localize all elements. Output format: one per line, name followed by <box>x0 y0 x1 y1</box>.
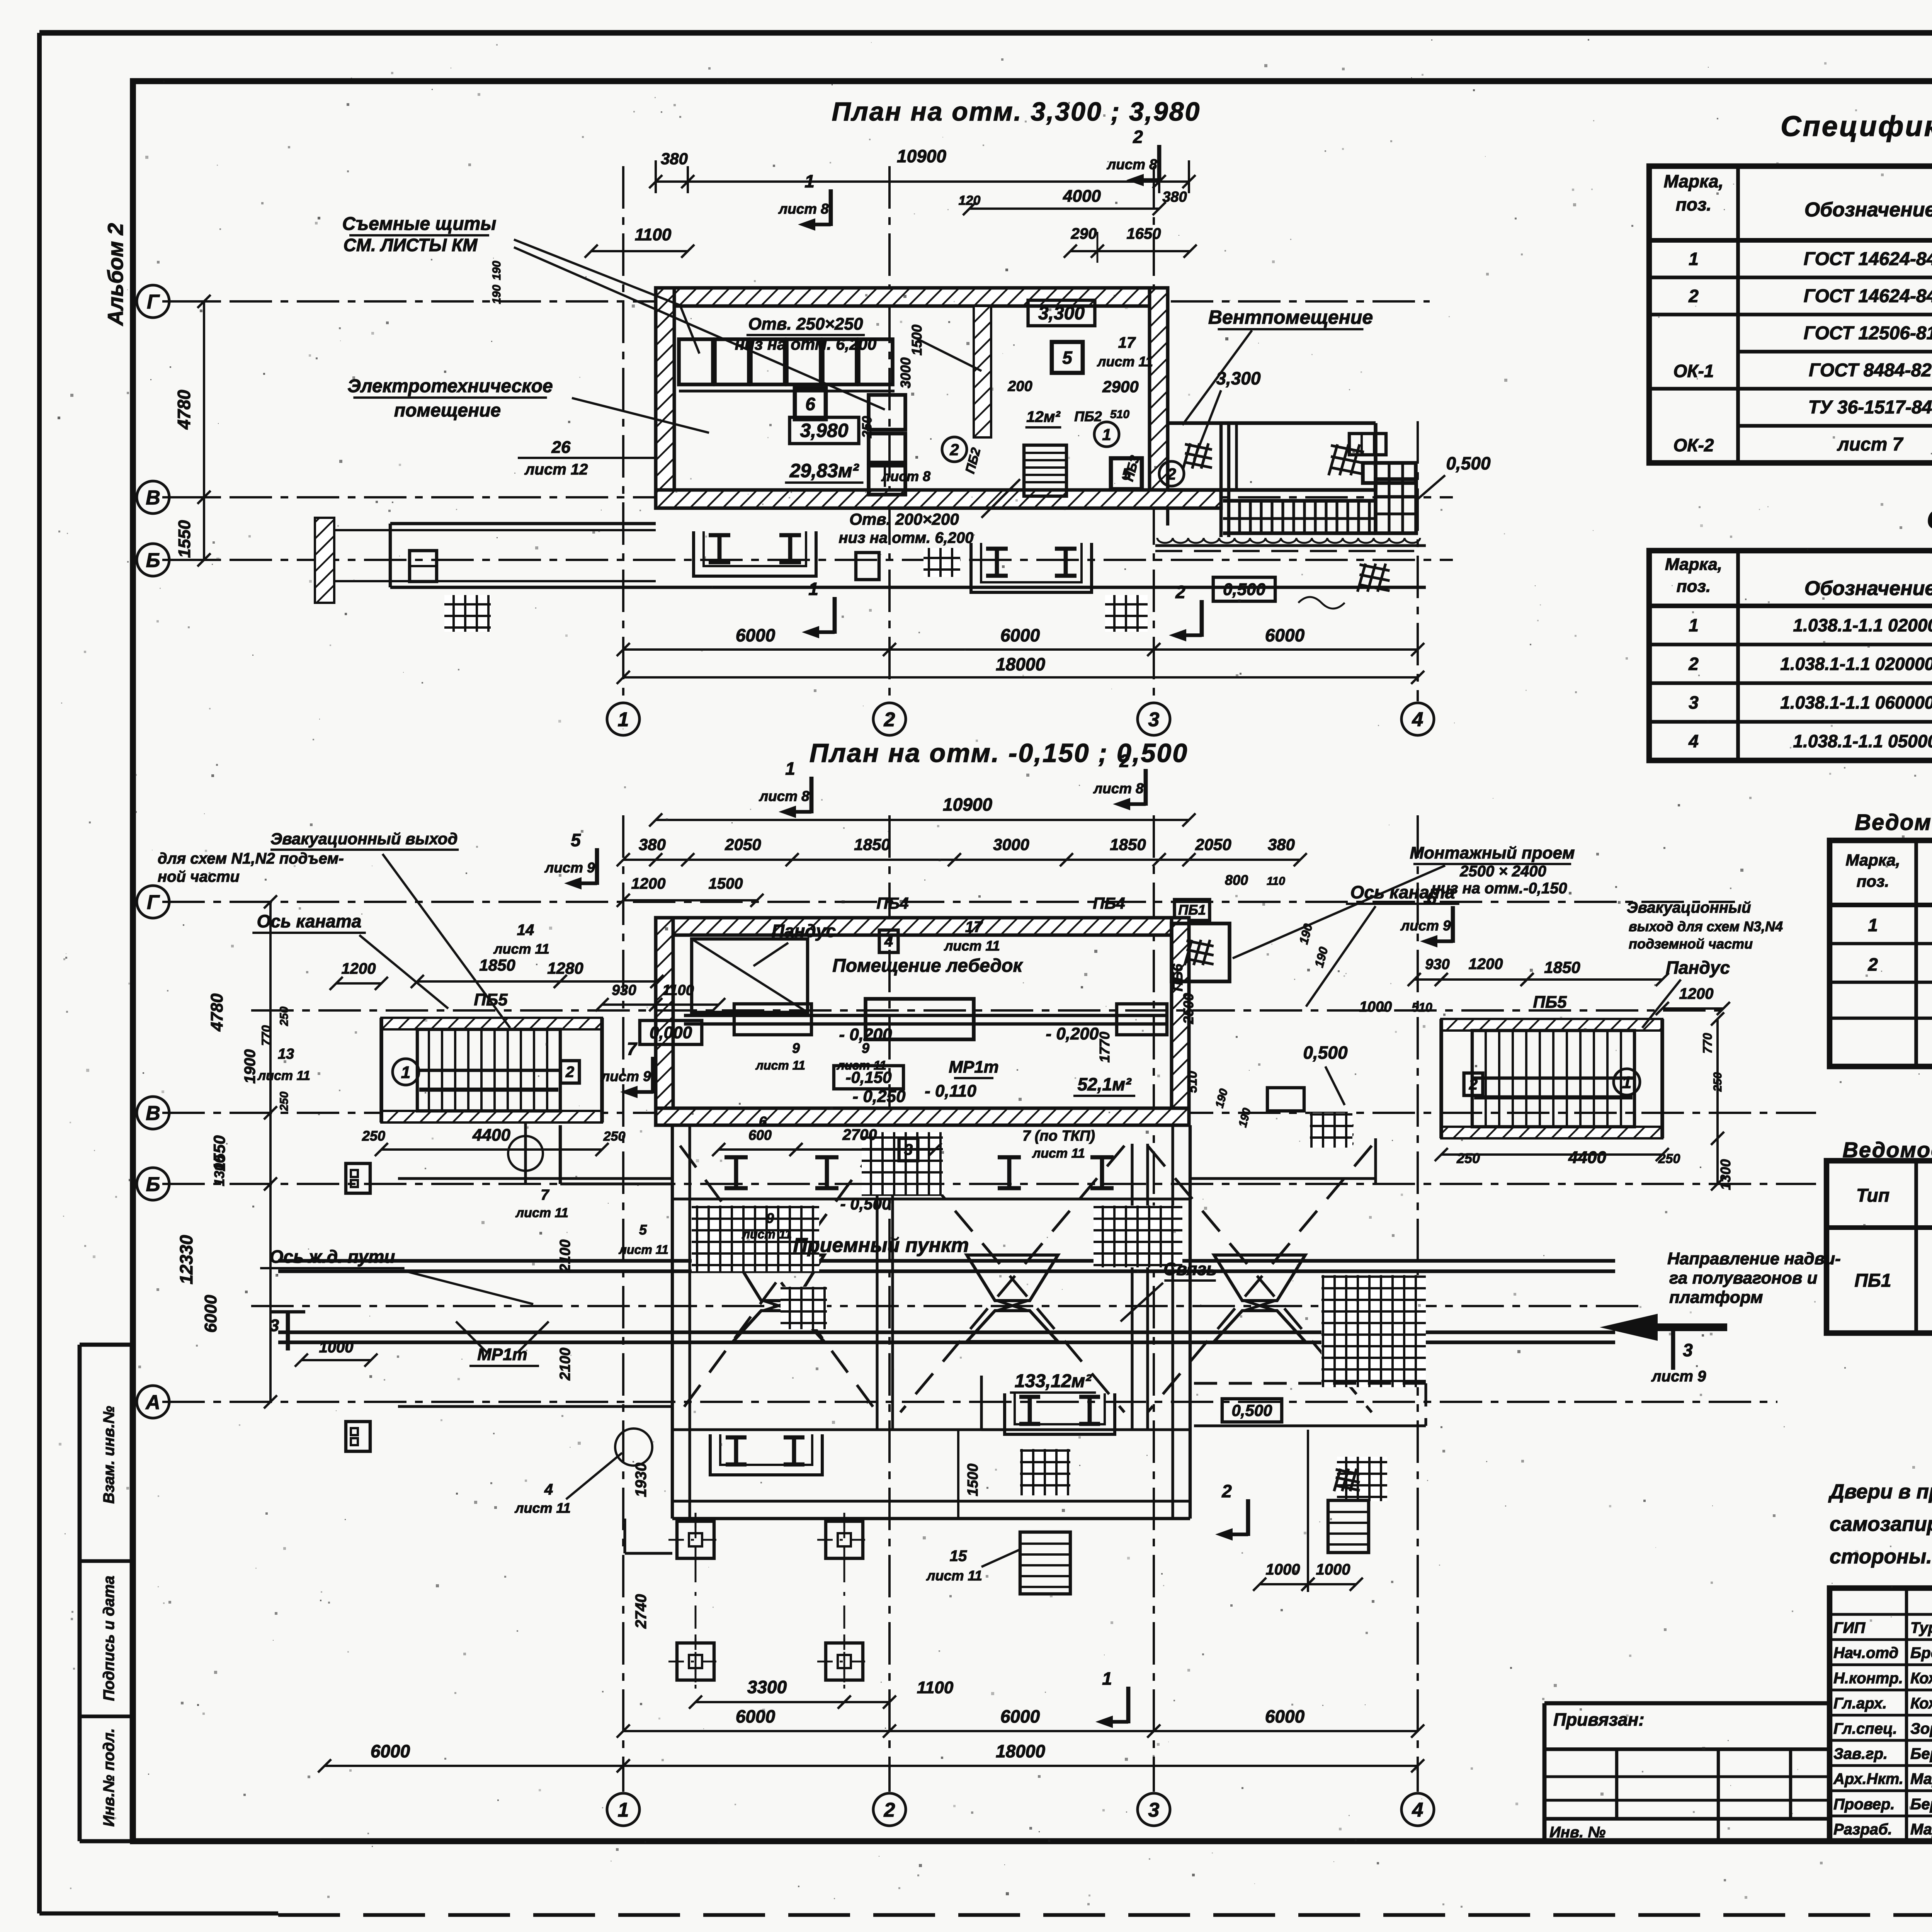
svg-text:250: 250 <box>1456 1150 1480 1166</box>
svg-text:лист 8: лист 8 <box>759 788 810 804</box>
svg-text:250: 250 <box>860 416 874 439</box>
svg-text:18000: 18000 <box>996 654 1045 674</box>
svg-text:для схем N1,N2 подъем-: для схем N1,N2 подъем- <box>158 850 344 867</box>
svg-text:- 0,110: - 0,110 <box>925 1082 976 1100</box>
svg-text:лист 8: лист 8 <box>1093 781 1144 796</box>
svg-text:3000: 3000 <box>993 835 1029 854</box>
binding block <box>1544 1703 1830 1841</box>
svg-text:Марголина: Марголина <box>1910 1821 1932 1838</box>
section flags list 8 under title <box>810 777 814 813</box>
svg-text:Направление надви-: Направление надви- <box>1667 1249 1841 1268</box>
svg-text:План на отм. -0,150 ; 0,500: План на отм. -0,150 ; 0,500 <box>810 738 1188 768</box>
svg-text:ОК-1: ОК-1 <box>1673 361 1714 381</box>
svg-text:12330: 12330 <box>176 1235 196 1284</box>
axis G line <box>162 300 1430 303</box>
svg-text:3,300: 3,300 <box>1038 303 1085 323</box>
svg-text:250: 250 <box>278 1092 291 1111</box>
platform scalloped edge <box>1157 538 1420 543</box>
svg-text:14: 14 <box>517 922 534 939</box>
svg-text:Эвакуационный: Эвакуационный <box>1627 899 1751 916</box>
svg-text:0,000: 0,000 <box>650 1023 692 1042</box>
svg-text:Двери в проеме поз. 2 выполн: Двери в проеме поз. 2 выполнить с уплотн… <box>1828 1480 1932 1503</box>
svg-text:1: 1 <box>401 1063 410 1082</box>
svg-text:2100: 2100 <box>557 1348 573 1381</box>
flag 5 list 9 <box>595 848 599 885</box>
svg-text:0,500: 0,500 <box>1223 580 1266 599</box>
svg-text:1.038.1-1.1 020000: 1.038.1-1.1 020000 <box>1793 615 1932 635</box>
svg-text:0,500: 0,500 <box>1303 1043 1348 1063</box>
svg-text:3: 3 <box>1683 1340 1693 1360</box>
small stair lower right <box>1328 1500 1369 1553</box>
svg-text:Привязан:: Привязан: <box>1553 1709 1645 1730</box>
svg-text:1100: 1100 <box>662 982 694 998</box>
svg-text:стороны.: стороны. <box>1830 1545 1932 1568</box>
svg-text:1650: 1650 <box>1127 225 1161 242</box>
vent room internal wall <box>1219 423 1223 537</box>
svg-text:Ось каната: Ось каната <box>257 911 362 931</box>
svg-text:4400: 4400 <box>1568 1148 1606 1167</box>
scan speckles <box>900 321 902 323</box>
svg-text:ПБ2: ПБ2 <box>1074 408 1102 424</box>
svg-text:платформ: платформ <box>1669 1288 1763 1307</box>
building top wall (bottom plan) <box>656 918 1189 935</box>
svg-text:1200: 1200 <box>1679 985 1714 1002</box>
svg-text:1850: 1850 <box>1544 958 1580 976</box>
svg-text:2: 2 <box>1221 1481 1232 1501</box>
section flag 1 bottom <box>833 597 837 634</box>
svg-text:низ на отм.-0,150: низ на отм.-0,150 <box>1431 880 1567 897</box>
svg-text:лист 11: лист 11 <box>755 1058 805 1072</box>
svg-text:Г: Г <box>147 891 160 914</box>
left vertical dims bottom plan <box>269 902 272 1402</box>
svg-text:29,83м²: 29,83м² <box>789 460 859 481</box>
svg-text:510: 510 <box>1185 1071 1200 1093</box>
building walls (top plan) <box>656 288 1168 306</box>
svg-text:10900: 10900 <box>943 794 992 815</box>
svg-text:Н.контр.: Н.контр. <box>1833 1670 1903 1687</box>
svg-text:Помещение лебедок: Помещение лебедок <box>832 956 1023 976</box>
svg-text:110: 110 <box>1267 875 1285 888</box>
svg-text:6000: 6000 <box>1265 1706 1305 1726</box>
svg-text:ПБ4: ПБ4 <box>1093 894 1125 912</box>
small hatch marks right of building <box>1325 1119 1332 1145</box>
flag 6 list 9 right <box>1451 906 1455 943</box>
platform lower edge <box>1155 544 1426 547</box>
svg-text:10900: 10900 <box>897 146 946 166</box>
svg-text:120: 120 <box>959 193 981 208</box>
svg-text:3: 3 <box>270 1316 279 1335</box>
column footings <box>677 1521 714 1558</box>
flag 7 list 9 left <box>651 1057 655 1094</box>
winch mechanism MR1t <box>684 1014 1167 1017</box>
svg-text:1000: 1000 <box>1359 999 1392 1015</box>
svg-text:190: 190 <box>490 261 503 280</box>
svg-text:1: 1 <box>1689 615 1699 635</box>
svg-text:Электротехническое: Электротехническое <box>347 376 553 396</box>
svg-text:1000: 1000 <box>1316 1561 1350 1578</box>
small stair lower center <box>1020 1532 1070 1594</box>
svg-text:лист 11: лист 11 <box>1032 1146 1085 1161</box>
svg-text:5: 5 <box>571 830 581 850</box>
svg-text:Отв. 250×250: Отв. 250×250 <box>748 315 863 333</box>
left vertical dimension 4780/1550 <box>203 301 205 560</box>
dimension 1100 <box>591 250 688 252</box>
svg-text:1000: 1000 <box>319 1339 354 1356</box>
svg-text:Ось ж.д. пути: Ось ж.д. пути <box>270 1247 395 1267</box>
svg-text:510: 510 <box>1110 408 1129 421</box>
svg-text:7: 7 <box>627 1039 638 1059</box>
svg-text:лист 9: лист 9 <box>1400 918 1451 934</box>
svg-text:1200: 1200 <box>631 875 666 892</box>
svg-text:- 0,200: - 0,200 <box>1046 1024 1099 1043</box>
svg-text:4: 4 <box>544 1481 553 1498</box>
dimension 290 1650 <box>1070 250 1190 252</box>
svg-text:поз.: поз. <box>1676 194 1711 214</box>
svg-text:В: В <box>146 1102 160 1125</box>
svg-text:Съемные щиты: Съемные щиты <box>342 214 497 234</box>
building right wall <box>1172 918 1189 1125</box>
svg-text:7 (по ТКП): 7 (по ТКП) <box>1022 1128 1095 1144</box>
svg-text:1.038.1-1.1 050000: 1.038.1-1.1 050000 <box>1793 731 1932 751</box>
section flag 1 bottom center <box>1126 1687 1131 1723</box>
svg-text:1280: 1280 <box>547 959 583 977</box>
svg-text:2: 2 <box>949 440 959 459</box>
svg-text:подземной части: подземной части <box>1629 936 1753 952</box>
platform railing top right <box>1223 499 1376 503</box>
hatch mark near stairs <box>1183 443 1190 469</box>
svg-text:1900: 1900 <box>241 1049 259 1084</box>
svg-text:- 0,500: - 0,500 <box>840 1195 891 1213</box>
svg-text:2: 2 <box>884 1799 895 1821</box>
svg-text:А: А <box>145 1391 160 1414</box>
svg-text:17: 17 <box>1118 334 1136 351</box>
svg-text:1500: 1500 <box>709 875 743 892</box>
svg-text:Г: Г <box>147 291 160 313</box>
axis B bubble <box>137 544 169 576</box>
svg-text:2: 2 <box>1867 954 1878 975</box>
svg-text:Марка,: Марка, <box>1664 171 1724 191</box>
svg-text:лист 9: лист 9 <box>1651 1368 1706 1385</box>
svg-text:7: 7 <box>541 1187 549 1203</box>
svg-text:Спецификация перемычек: Спецификация перемычек <box>1927 504 1932 534</box>
svg-text:Марка,: Марка, <box>1845 851 1900 869</box>
svg-text:6: 6 <box>805 394 815 414</box>
svg-text:380: 380 <box>661 150 688 168</box>
svg-text:250: 250 <box>603 1129 626 1144</box>
svg-text:2: 2 <box>884 709 895 731</box>
svg-text:Зав.гр.: Зав.гр. <box>1833 1745 1888 1762</box>
svg-text:4: 4 <box>1412 1799 1423 1821</box>
svg-text:Спецификация элементов зап: Спецификация элементов заполнения проемо… <box>1781 110 1932 142</box>
svg-text:1200: 1200 <box>1469 956 1503 973</box>
svg-text:0,500: 0,500 <box>1446 453 1491 473</box>
svg-text:выход для схем N3,N4: выход для схем N3,N4 <box>1629 918 1783 934</box>
foundation channel plates (top plan, lower strip) <box>694 531 816 576</box>
svg-text:2: 2 <box>1167 465 1176 483</box>
svg-text:Обозначение: Обозначение <box>1804 199 1932 221</box>
svg-text:Инв. №: Инв. № <box>1549 1824 1605 1841</box>
svg-text:лист 8: лист 8 <box>1106 156 1157 172</box>
svg-text:лист 11: лист 11 <box>618 1243 668 1257</box>
left stair block <box>381 1018 602 1122</box>
svg-text:1550: 1550 <box>175 520 194 558</box>
axis V bubble <box>137 481 169 514</box>
montage opening piece <box>1172 923 1230 981</box>
svg-text:2500 × 2400: 2500 × 2400 <box>1459 863 1546 880</box>
bottom dims of bottom plan <box>623 1730 1418 1732</box>
svg-text:4780: 4780 <box>174 389 194 430</box>
svg-text:лист 11: лист 11 <box>742 1227 792 1241</box>
table: lintel specification <box>1649 551 1932 760</box>
top plan interior marks <box>795 388 826 419</box>
circle mark lower left <box>615 1429 652 1466</box>
svg-text:1: 1 <box>618 1799 629 1821</box>
svg-text:В: В <box>146 487 160 509</box>
svg-text:1850: 1850 <box>854 835 890 854</box>
top plan column bubbles 1-4 <box>607 703 639 735</box>
svg-text:4780: 4780 <box>207 993 226 1032</box>
svg-text:770: 770 <box>259 1025 273 1046</box>
footing axes dashed <box>695 1513 697 1689</box>
svg-text:250: 250 <box>278 1007 291 1026</box>
svg-text:26: 26 <box>551 438 571 457</box>
dim 1000 left <box>301 1359 371 1361</box>
svg-text:15: 15 <box>950 1548 967 1565</box>
svg-text:Зорин: Зорин <box>1910 1720 1932 1737</box>
svg-text:Пандус: Пандус <box>772 921 836 941</box>
left margin strip <box>78 1345 82 1841</box>
underground structure outline <box>671 1125 674 1519</box>
svg-text:290: 290 <box>1071 225 1097 242</box>
small elevated railing <box>1363 463 1416 483</box>
svg-text:МР1т: МР1т <box>949 1058 999 1077</box>
svg-text:Нач.отд: Нач.отд <box>1833 1645 1898 1662</box>
svg-text:ГОСТ 8484-82: ГОСТ 8484-82 <box>1809 360 1932 381</box>
svg-text:лист 12: лист 12 <box>524 461 588 478</box>
retaining wall end element <box>315 518 334 603</box>
svg-text:ГОСТ 12506-81: ГОСТ 12506-81 <box>1804 323 1932 344</box>
svg-text:Обозначение: Обозначение <box>1804 577 1932 600</box>
title block <box>1830 1588 1932 1841</box>
vent room walls <box>1168 421 1376 425</box>
svg-text:0,500: 0,500 <box>1231 1401 1272 1419</box>
svg-text:13: 13 <box>278 1046 294 1062</box>
svg-text:Монтажный проем: Монтажный проем <box>1410 844 1575 862</box>
svg-text:3: 3 <box>1148 709 1160 731</box>
svg-text:лист 11: лист 11 <box>257 1068 310 1083</box>
svg-text:ПБ1: ПБ1 <box>1178 902 1206 918</box>
svg-text:3: 3 <box>1689 692 1699 713</box>
svg-text:1: 1 <box>1689 249 1699 269</box>
svg-text:9: 9 <box>766 1210 774 1226</box>
right railing grid <box>1376 479 1416 533</box>
section flag 2 list 8 (top right) <box>1157 145 1162 182</box>
svg-text:Разраб.: Разраб. <box>1833 1821 1892 1838</box>
svg-text:Взам. инв.№: Взам. инв.№ <box>100 1406 117 1503</box>
svg-text:лист 11: лист 11 <box>1097 354 1153 369</box>
svg-text:4400: 4400 <box>472 1126 510 1145</box>
svg-text:5: 5 <box>1062 348 1073 368</box>
svg-text:9: 9 <box>862 1040 869 1056</box>
E3 box on B axis <box>346 1163 370 1193</box>
svg-text:помещение: помещение <box>394 400 501 421</box>
svg-text:6000: 6000 <box>201 1295 220 1333</box>
svg-text:Отв. 200×200: Отв. 200×200 <box>849 510 959 528</box>
svg-text:2050: 2050 <box>1195 835 1231 854</box>
svg-text:2900: 2900 <box>1102 378 1138 396</box>
svg-text:133,12м²: 133,12м² <box>1015 1371 1092 1391</box>
svg-text:6000: 6000 <box>1000 625 1040 645</box>
railway rails <box>278 1259 1615 1263</box>
svg-text:Берлин: Берлин <box>1910 1796 1932 1813</box>
svg-text:1500: 1500 <box>965 1464 981 1497</box>
svg-text:1: 1 <box>1102 425 1111 444</box>
svg-text:1850: 1850 <box>1110 835 1146 854</box>
svg-text:380: 380 <box>1268 835 1295 854</box>
svg-text:самозапирающиеся, открывающие: самозапирающиеся, открывающиеся без ключ… <box>1830 1513 1932 1536</box>
svg-text:2500: 2500 <box>1180 993 1196 1024</box>
small railing right <box>1267 1088 1304 1111</box>
svg-text:380: 380 <box>639 835 666 854</box>
lower foundation plates <box>710 1434 822 1475</box>
bottom plan column bubbles <box>607 1793 639 1826</box>
table: door openings list <box>1830 840 1932 1066</box>
squiggle break mark <box>1298 597 1345 609</box>
opening I-beams lower wall <box>998 1155 1021 1160</box>
small foundation marks on B axis <box>410 565 437 567</box>
svg-text:Пандус: Пандус <box>1666 957 1730 978</box>
svg-text:6000: 6000 <box>1265 625 1305 645</box>
svg-text:2: 2 <box>1175 582 1185 602</box>
right stair block <box>1441 1019 1662 1138</box>
svg-text:1: 1 <box>808 579 818 599</box>
bottom plan axes <box>162 901 1735 903</box>
svg-text:4000: 4000 <box>1063 187 1101 206</box>
svg-text:низ на отм. 6,200: низ на отм. 6,200 <box>735 335 876 353</box>
right lower platform dashed outline <box>1194 1382 1426 1384</box>
svg-text:СМ. ЛИСТЫ КМ: СМ. ЛИСТЫ КМ <box>344 235 478 255</box>
svg-text:6000: 6000 <box>1000 1706 1040 1726</box>
svg-text:лист 9: лист 9 <box>600 1068 651 1084</box>
svg-text:2100: 2100 <box>557 1240 573 1273</box>
svg-text:3: 3 <box>1148 1799 1160 1821</box>
svg-text:лист 11: лист 11 <box>944 938 1000 954</box>
svg-text:Кожевников: Кожевников <box>1910 1670 1932 1687</box>
circle mark mid left <box>508 1136 543 1171</box>
small stair in top plan <box>1024 445 1066 496</box>
svg-text:5: 5 <box>639 1222 647 1238</box>
foundation line on B axis left <box>398 1177 672 1180</box>
bay divider walls <box>876 1144 878 1430</box>
receiving point inner walls <box>672 1197 1190 1200</box>
svg-text:лист 11: лист 11 <box>493 941 549 957</box>
svg-text:250: 250 <box>1711 1072 1724 1092</box>
svg-text:поз.: поз. <box>1857 872 1889 890</box>
svg-text:2: 2 <box>1688 286 1699 306</box>
svg-text:ПБ1: ПБ1 <box>1854 1270 1891 1291</box>
svg-text:930: 930 <box>612 982 636 998</box>
hoppers with X diagonals <box>680 1146 877 1412</box>
top dimension row: 380 10900 <box>656 180 1189 183</box>
svg-text:ГОСТ 14624-84: ГОСТ 14624-84 <box>1804 249 1932 269</box>
svg-text:1200: 1200 <box>342 960 376 977</box>
svg-text:600: 600 <box>748 1127 772 1143</box>
svg-text:1: 1 <box>785 759 795 779</box>
svg-text:Бродский: Бродский <box>1910 1645 1932 1662</box>
svg-text:1100: 1100 <box>635 225 672 244</box>
svg-text:Тип: Тип <box>1856 1185 1889 1206</box>
svg-text:Марголина: Марголина <box>1910 1770 1932 1787</box>
svg-text:3,980: 3,980 <box>800 420 848 441</box>
svg-text:1930: 1930 <box>633 1463 650 1497</box>
lower pit below building <box>623 1519 626 1553</box>
svg-text:930: 930 <box>1425 956 1449 973</box>
axis B line <box>162 559 1453 561</box>
E3 box on A axis <box>346 1422 370 1451</box>
svg-text:МР1т: МР1т <box>477 1345 527 1364</box>
bottom plan column axis lines <box>622 815 624 1792</box>
svg-text:2740: 2740 <box>633 1594 650 1629</box>
svg-text:Эвакуационный выход: Эвакуационный выход <box>270 830 457 848</box>
svg-text:17: 17 <box>965 918 983 935</box>
top plan column axis lines <box>622 166 624 701</box>
svg-text:1: 1 <box>1102 1668 1112 1689</box>
svg-text:лист 11: лист 11 <box>515 1206 568 1220</box>
svg-text:1: 1 <box>1622 1073 1631 1092</box>
0,500 boxed lower right <box>1222 1399 1282 1422</box>
svg-text:Марка,: Марка, <box>1665 555 1722 574</box>
axis G bubble <box>137 285 169 318</box>
svg-text:Вентпомещение: Вентпомещение <box>1208 306 1373 328</box>
svg-text:Провер.: Провер. <box>1833 1796 1895 1813</box>
svg-text:1770: 1770 <box>1097 1032 1112 1063</box>
svg-text:1.038.1-1.1 020000-02: 1.038.1-1.1 020000-02 <box>1780 654 1932 674</box>
lower strip outline (top plan) <box>390 586 1426 589</box>
svg-text:1300: 1300 <box>1718 1159 1733 1190</box>
svg-text:1100: 1100 <box>917 1678 954 1697</box>
svg-text:План на отм. 3,300 ; 3,980: План на отм. 3,300 ; 3,980 <box>832 97 1201 126</box>
vent room hatch <box>1329 444 1338 475</box>
svg-text:Туринский: Туринский <box>1910 1619 1932 1636</box>
svg-text:Б: Б <box>146 549 160 572</box>
railway centre line <box>251 1305 1642 1307</box>
svg-text:Гл.арх.: Гл.арх. <box>1833 1695 1887 1712</box>
svg-text:3000: 3000 <box>898 357 913 388</box>
svg-text:ной части: ной части <box>158 868 240 885</box>
svg-text:1.038.1-1.1 060000-04: 1.038.1-1.1 060000-04 <box>1780 692 1932 713</box>
svg-text:770: 770 <box>1701 1033 1714 1054</box>
svg-text:ОК-2: ОК-2 <box>1673 435 1714 455</box>
svg-text:1: 1 <box>1868 915 1878 935</box>
svg-text:ГОСТ 14624-84: ГОСТ 14624-84 <box>1804 286 1932 306</box>
svg-text:380: 380 <box>1162 189 1187 205</box>
svg-text:- 0,250: - 0,250 <box>853 1087 906 1106</box>
panel stack near partition <box>869 395 905 430</box>
axis V line <box>162 496 1453 498</box>
svg-text:2: 2 <box>1688 654 1699 674</box>
svg-text:2: 2 <box>1133 127 1143 147</box>
table: lintel list beginning <box>1827 1161 1932 1333</box>
reinforcement mesh patches <box>692 1206 819 1271</box>
level marks bottom plan <box>640 1020 702 1044</box>
svg-text:52,1м²: 52,1м² <box>1078 1074 1132 1094</box>
svg-text:ПБ4: ПБ4 <box>876 894 908 912</box>
svg-text:поз.: поз. <box>1677 577 1711 596</box>
svg-text:Подпись и дата: Подпись и дата <box>100 1576 117 1701</box>
section flag 1 list 8 (top) <box>829 189 833 226</box>
svg-text:18000: 18000 <box>996 1741 1045 1761</box>
dim 4400 under left stair <box>381 1148 602 1151</box>
